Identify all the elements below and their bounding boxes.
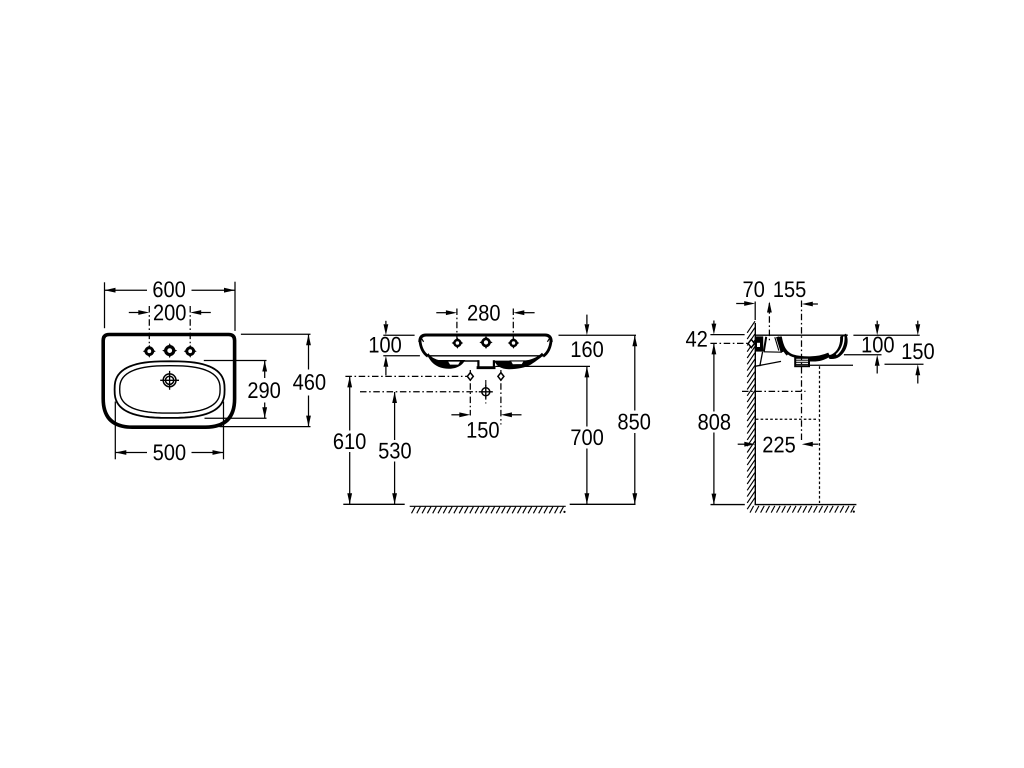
dimension 100 (front): label [370,337,401,353]
drain tab (front view) [477,360,479,366]
dimension 200: label [154,305,186,321]
front rim (side view) [827,334,848,359]
dimension 460: extension lines [241,333,311,335]
basin underside left foot (front view) [427,353,465,369]
bowl outer rim (top view) [115,361,225,418]
bowl inner surface (side view) [780,337,829,358]
mounting bracket (side view) [756,336,764,351]
faucet hole center (front view) [479,336,492,349]
dimension 700: label [571,429,603,445]
bowl inner rim (top view) [120,366,220,413]
basin right side (front view) [543,340,551,356]
drain axis vertical (front view, dash-dot) [485,380,487,404]
dimension 150 (side): arrows [917,321,919,325]
dimension 500: label [153,444,185,460]
faucet hole left (top view) [143,345,156,358]
faucet hole right (front view) [508,337,520,349]
drain axis (side view, dash-dot) [801,301,803,442]
floor hatching (side view) [750,506,854,513]
basin corner tick left (front view) [421,338,424,342]
dimension 460: label [293,374,325,390]
wall face line (side view) [754,323,756,505]
wall fixing hole (side view) [748,339,754,347]
basin rim inner line (front view) [429,355,545,357]
dimension 155: label [774,281,805,297]
overflow notch left (front view) [447,361,461,365]
basin top edge (front view) [420,335,551,342]
bowl bottom right of trap (side view) [810,354,830,362]
dimension 42: label [686,331,707,347]
dimension 160: top arrow [586,315,588,325]
dimension 530: line and arrows [394,392,396,440]
dimension 700: line and arrows [586,366,588,426]
drain trap (side view) [795,358,809,366]
basin outline (top view) [103,335,234,428]
dimension 290: line and arrows [264,361,266,379]
dimension 155: arrow [812,303,818,305]
basin underside right foot (front view) [494,353,544,369]
dimension 610: label [334,433,366,449]
dimension 70: arrow [736,303,744,305]
drain symbol (front view) [479,385,493,399]
dimension 600: extension lines [104,282,106,328]
drain symbol (top view) [160,371,179,390]
dimension 290: extension lines [204,360,267,362]
dimension 42: extension line [710,334,744,336]
fixing axis arrow [767,302,772,313]
dimension 225: label [763,437,795,453]
dimension 100 (side): label [863,337,894,353]
dimension 225: arrows [738,443,745,445]
dimension 280: arrows [436,312,446,314]
dimension 200: extension lines (dash-dot) [148,306,150,345]
bowl left wall (side view) [780,337,788,355]
overflow notch right (front view) [510,361,524,365]
dimension 280: extension lines (dash-dot) [456,309,458,340]
fixing axis (side view, dash-dot) [768,303,770,342]
pedestal hidden outline horizontal (dotted) [756,418,819,420]
floor hatching (front view) [410,505,566,507]
dimension 290: label [248,382,280,398]
dimension 280: label [468,305,500,321]
pedestal hidden outline vertical (dotted) [819,366,821,503]
faucet hole left (front view) [452,337,464,349]
floor line (side view) [711,504,745,506]
dimension 42: arrows [713,321,715,325]
dimension 150 (side): extension lines [810,364,853,366]
dimension 70: extension line [754,302,756,321]
dimension 200: arrows [129,312,139,314]
fixing hole right (front view) [500,370,502,425]
dimension 100 (side): arrows [876,321,878,325]
basin top edge (side view) [756,334,848,336]
fixing height axis (dash-dot) [710,342,747,344]
wall hatching (side view) [747,321,755,509]
underside plateau left (front view) [461,360,479,362]
dimension 100 (front): arrows [385,321,387,325]
faucet hole center (top view) [162,343,177,358]
dimension 70: label [744,281,764,297]
basin corner tick right (front view) [547,338,550,342]
basin left side (front view) [420,340,428,356]
fixing holes axis (dash-dot) [345,375,467,377]
dimension 150 (front): arrows [451,414,460,416]
dimension 160: label [572,341,603,357]
dimension 160: extension lines [559,334,637,336]
faucet hole right (top view) [184,345,197,358]
basin rear lower edge (side view) [760,352,763,366]
lower fixing axis (side view, dash-dot) [742,390,806,392]
dimension 100 (side): extension lines [853,334,919,336]
dimension 530: label [379,443,411,459]
dimension 500: extension lines [114,402,116,460]
dimension 610: line and arrows [349,376,351,430]
dimension 808: label [698,414,730,430]
drain axis (dash-dot) [360,391,479,393]
tap deck channel (side view) [764,337,766,352]
dimension 460: line and arrows [308,334,310,369]
dimension 150 (side): label [903,343,934,359]
dimension 850: line and arrows [634,335,636,410]
dimension 808: line and arrows [712,343,717,354]
dimension 850: label [618,414,650,430]
fixing hole left (front view) [469,370,471,416]
dimension 600: label [153,281,185,297]
dimension 100 (front): extension lines [383,334,414,336]
dimension 500: line and arrows [115,452,147,454]
tap deck bottom (side view) [764,351,782,353]
basin underside (side view) [756,361,781,366]
dimension 150 (front): label [468,422,499,438]
dimension 600: line and arrows [105,289,148,291]
floor line (front view) [343,503,404,505]
